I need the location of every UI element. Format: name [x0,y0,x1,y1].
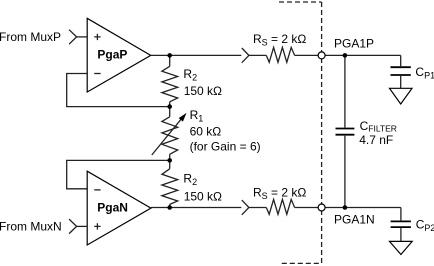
svg-text:From MuxN: From MuxN [0,220,62,234]
svg-text:150 kΩ: 150 kΩ [184,189,222,203]
svg-text:4.7 nF: 4.7 nF [359,133,393,147]
svg-text:PGA1P: PGA1P [334,36,374,50]
svg-text:150 kΩ: 150 kΩ [184,84,222,98]
svg-text:From MuxP: From MuxP [0,30,61,44]
svg-text:R1: R1 [190,108,204,124]
svg-text:CFILTER: CFILTER [360,119,397,134]
svg-text:60 kΩ: 60 kΩ [190,124,222,138]
svg-text:PgaP: PgaP [97,47,127,61]
svg-text:CP1: CP1 [415,65,434,81]
svg-text:R2: R2 [183,67,197,83]
svg-text:(for Gain = 6): (for Gain = 6) [190,140,261,154]
svg-text:R2: R2 [183,172,197,188]
svg-text:RS = 2 kΩ: RS = 2 kΩ [253,32,306,48]
svg-text:RS = 2 kΩ: RS = 2 kΩ [253,185,306,201]
svg-text:PGA1N: PGA1N [334,213,375,227]
svg-text:PgaN: PgaN [97,201,128,215]
svg-text:CP2: CP2 [416,218,434,234]
